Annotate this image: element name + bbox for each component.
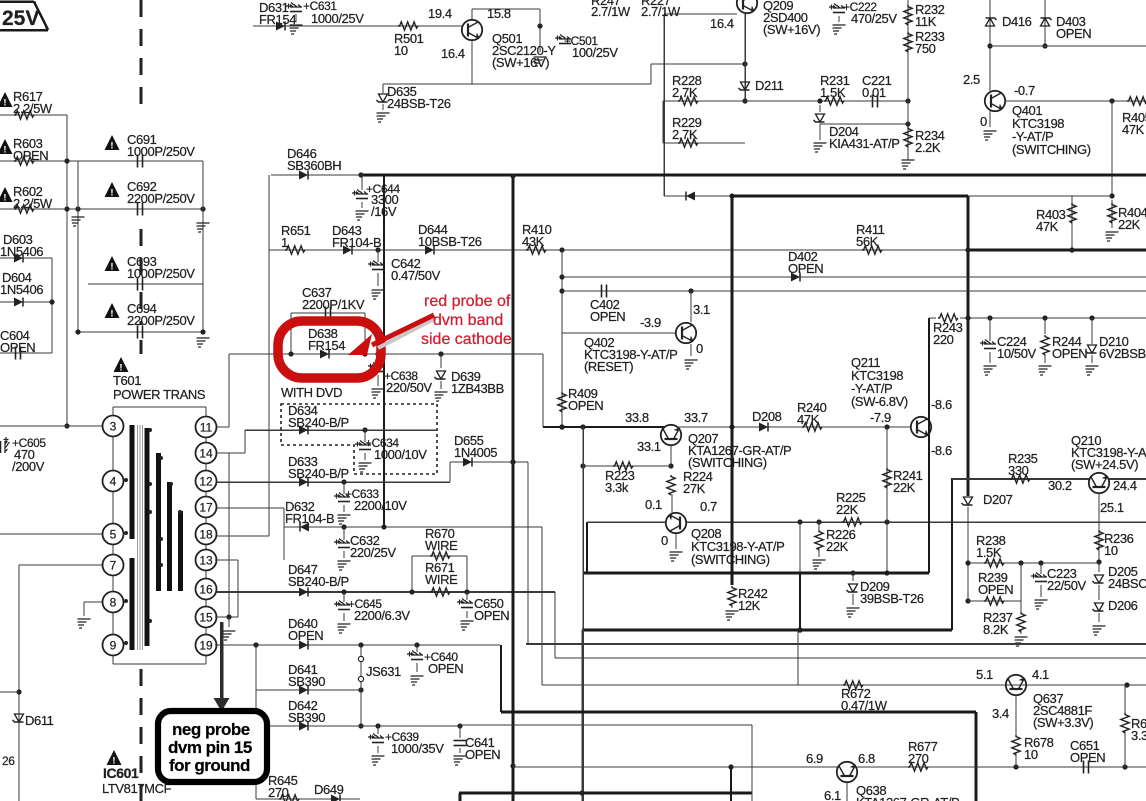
svg-text:OPEN: OPEN bbox=[590, 309, 625, 324]
svg-text:R247: R247 bbox=[591, 0, 621, 8]
svg-text:6V2BSB-: 6V2BSB- bbox=[1099, 346, 1146, 361]
svg-text:SB390: SB390 bbox=[288, 674, 325, 689]
svg-text:9: 9 bbox=[110, 639, 117, 653]
svg-text:16: 16 bbox=[199, 583, 213, 597]
svg-text:3.3k: 3.3k bbox=[605, 480, 629, 495]
svg-text:16.4: 16.4 bbox=[441, 46, 465, 61]
svg-text:1000P/250V: 1000P/250V bbox=[127, 266, 195, 281]
svg-text:47K: 47K bbox=[1122, 122, 1145, 137]
svg-text:2200P/250V: 2200P/250V bbox=[127, 191, 195, 206]
svg-text:15: 15 bbox=[199, 611, 213, 625]
svg-text:4: 4 bbox=[110, 475, 117, 489]
svg-text:330: 330 bbox=[1008, 463, 1029, 478]
svg-text:2.2/5W: 2.2/5W bbox=[13, 101, 53, 116]
svg-text:FR104-B: FR104-B bbox=[285, 511, 334, 526]
svg-text:OPEN: OPEN bbox=[288, 628, 323, 643]
svg-text:22/50V: 22/50V bbox=[1047, 578, 1087, 593]
svg-text:!: ! bbox=[3, 193, 6, 204]
svg-text:12: 12 bbox=[199, 475, 213, 489]
svg-text:0.47/1W: 0.47/1W bbox=[841, 698, 888, 713]
svg-text:27K: 27K bbox=[683, 481, 706, 496]
svg-text:OPEN: OPEN bbox=[0, 340, 35, 355]
svg-text:1N4005: 1N4005 bbox=[454, 445, 497, 460]
svg-text:8: 8 bbox=[110, 596, 117, 610]
svg-text:10/50V: 10/50V bbox=[997, 346, 1037, 361]
svg-text:JS631: JS631 bbox=[366, 664, 401, 679]
svg-text:22K: 22K bbox=[826, 539, 849, 554]
svg-text:0.01: 0.01 bbox=[862, 85, 886, 100]
svg-text:FR154: FR154 bbox=[308, 338, 345, 353]
svg-text:D611: D611 bbox=[25, 713, 54, 728]
svg-text:0: 0 bbox=[980, 114, 987, 129]
svg-text:!: ! bbox=[3, 98, 6, 109]
svg-text:24BSB-T26: 24BSB-T26 bbox=[387, 96, 451, 111]
svg-text:side cathode: side cathode bbox=[421, 331, 512, 348]
svg-text:19.4: 19.4 bbox=[428, 6, 452, 21]
svg-text:0.47/50V: 0.47/50V bbox=[391, 268, 441, 283]
svg-text:-0.7: -0.7 bbox=[1014, 83, 1035, 98]
svg-text:(SW+3.3V): (SW+3.3V) bbox=[1033, 715, 1093, 730]
svg-text:6.8: 6.8 bbox=[858, 751, 875, 766]
svg-text:SB240-B/P: SB240-B/P bbox=[288, 574, 349, 589]
svg-text:(SW+24.5V): (SW+24.5V) bbox=[1071, 457, 1138, 472]
svg-text:2200P/1KV: 2200P/1KV bbox=[302, 297, 365, 312]
svg-text:red probe of: red probe of bbox=[424, 293, 511, 310]
svg-text:2.2/5W: 2.2/5W bbox=[13, 196, 53, 211]
svg-text:8.2K: 8.2K bbox=[983, 622, 1009, 637]
svg-text:0: 0 bbox=[661, 533, 668, 548]
svg-text:1000/10V: 1000/10V bbox=[374, 447, 427, 462]
svg-text:39BSB-T26: 39BSB-T26 bbox=[860, 591, 924, 606]
svg-text:2200P/250V: 2200P/250V bbox=[127, 313, 195, 328]
svg-text:OPEN: OPEN bbox=[568, 398, 603, 413]
svg-text:SB240-B/P: SB240-B/P bbox=[288, 466, 349, 481]
svg-text:220/25V: 220/25V bbox=[350, 545, 396, 560]
svg-text:25V: 25V bbox=[2, 7, 39, 30]
svg-text:OPEN: OPEN bbox=[978, 582, 1013, 597]
svg-text:D416: D416 bbox=[1002, 14, 1032, 29]
svg-text:KTA1267-GR-AT/P: KTA1267-GR-AT/P bbox=[856, 795, 959, 801]
svg-text:WITH DVD: WITH DVD bbox=[281, 385, 342, 400]
svg-text:24.4: 24.4 bbox=[1113, 478, 1137, 493]
svg-text:D207: D207 bbox=[983, 492, 1013, 507]
svg-text:13: 13 bbox=[199, 554, 213, 568]
svg-text:(SW-6.8V): (SW-6.8V) bbox=[851, 394, 908, 409]
svg-text:D208: D208 bbox=[752, 409, 782, 424]
svg-text:WIRE: WIRE bbox=[425, 572, 458, 587]
svg-text:10: 10 bbox=[1024, 747, 1038, 762]
svg-text:FR104-B: FR104-B bbox=[332, 235, 381, 250]
svg-text:270: 270 bbox=[908, 751, 929, 766]
svg-text:for ground: for ground bbox=[169, 756, 250, 775]
svg-text:IC601: IC601 bbox=[103, 765, 139, 781]
svg-text:3: 3 bbox=[110, 420, 117, 434]
svg-text:!: ! bbox=[110, 262, 113, 273]
svg-text:56K: 56K bbox=[856, 234, 879, 249]
svg-text:750: 750 bbox=[915, 41, 936, 56]
svg-text:270: 270 bbox=[268, 785, 289, 800]
svg-text:LTV817MCF: LTV817MCF bbox=[102, 781, 172, 796]
svg-text:(SWITCHING): (SWITCHING) bbox=[688, 455, 767, 470]
svg-text:-8.6: -8.6 bbox=[931, 443, 952, 458]
svg-text:22K: 22K bbox=[836, 502, 859, 517]
svg-text:10BSB-T26: 10BSB-T26 bbox=[418, 234, 482, 249]
svg-text:1000/35V: 1000/35V bbox=[391, 741, 444, 756]
svg-text:0.1: 0.1 bbox=[645, 497, 662, 512]
svg-text:3.1: 3.1 bbox=[693, 302, 710, 317]
svg-text:5: 5 bbox=[110, 528, 117, 542]
svg-text:3.4: 3.4 bbox=[992, 706, 1009, 721]
svg-text:!: ! bbox=[110, 309, 113, 320]
svg-text:SB240-B/P: SB240-B/P bbox=[288, 415, 349, 430]
svg-text:7: 7 bbox=[110, 559, 117, 573]
svg-text:/200V: /200V bbox=[12, 459, 45, 474]
svg-text:WIRE: WIRE bbox=[425, 538, 458, 553]
svg-text:19: 19 bbox=[199, 639, 213, 653]
svg-text:!: ! bbox=[110, 141, 113, 152]
svg-text:OPEN: OPEN bbox=[1070, 750, 1105, 765]
svg-text:OPEN: OPEN bbox=[1052, 346, 1087, 361]
svg-text:12K: 12K bbox=[738, 598, 761, 613]
svg-text:OPEN: OPEN bbox=[465, 747, 500, 762]
svg-text:11: 11 bbox=[200, 421, 213, 435]
svg-text:!: ! bbox=[110, 188, 113, 199]
svg-text:11K: 11K bbox=[915, 14, 937, 29]
svg-text:(SWITCHING): (SWITCHING) bbox=[691, 552, 770, 567]
svg-text:dvm pin 15: dvm pin 15 bbox=[168, 738, 252, 757]
svg-text:220: 220 bbox=[933, 332, 954, 347]
svg-text:24BSC-: 24BSC- bbox=[1108, 576, 1146, 591]
svg-text:dvm band: dvm band bbox=[433, 312, 503, 329]
svg-text:(SW+16V): (SW+16V) bbox=[763, 22, 820, 37]
svg-text:(RESET): (RESET) bbox=[584, 359, 633, 374]
svg-text:SB390: SB390 bbox=[288, 710, 325, 725]
svg-text:1N5406: 1N5406 bbox=[0, 282, 43, 297]
svg-text:1N5406: 1N5406 bbox=[0, 244, 43, 259]
svg-text:2.5: 2.5 bbox=[963, 72, 980, 87]
svg-text:5.1: 5.1 bbox=[976, 667, 993, 682]
svg-text:!: ! bbox=[3, 145, 6, 156]
svg-text:2200/6.3V: 2200/6.3V bbox=[354, 608, 410, 623]
svg-text:4.1: 4.1 bbox=[1032, 667, 1049, 682]
svg-text:2.7K: 2.7K bbox=[672, 85, 698, 100]
svg-text:T601: T601 bbox=[113, 373, 141, 388]
svg-text:10: 10 bbox=[394, 43, 408, 58]
svg-text:D649: D649 bbox=[314, 782, 344, 797]
svg-text:neg probe: neg probe bbox=[172, 720, 250, 739]
svg-text:!: ! bbox=[119, 363, 122, 374]
svg-text:SB360BH: SB360BH bbox=[287, 158, 341, 173]
svg-text:3.3: 3.3 bbox=[1131, 728, 1146, 743]
svg-text:1000P/250V: 1000P/250V bbox=[127, 144, 195, 159]
svg-text:25.1: 25.1 bbox=[1100, 500, 1124, 515]
svg-text:6.9: 6.9 bbox=[806, 751, 823, 766]
svg-text:22K: 22K bbox=[1118, 217, 1141, 232]
svg-text:47K: 47K bbox=[797, 412, 820, 427]
svg-text:33.1: 33.1 bbox=[637, 439, 661, 454]
svg-text:17: 17 bbox=[199, 501, 213, 515]
svg-text:/16V: /16V bbox=[371, 204, 397, 219]
svg-text:220/50V: 220/50V bbox=[386, 380, 432, 395]
svg-text:1: 1 bbox=[281, 235, 288, 250]
svg-text:-8.6: -8.6 bbox=[931, 397, 952, 412]
svg-text:OPEN: OPEN bbox=[1056, 26, 1091, 41]
svg-text:FR154: FR154 bbox=[259, 12, 296, 27]
svg-text:(SWITCHING): (SWITCHING) bbox=[1012, 142, 1091, 157]
svg-text:1.5K: 1.5K bbox=[820, 85, 846, 100]
svg-text:33.8: 33.8 bbox=[625, 410, 649, 425]
svg-text:0: 0 bbox=[696, 341, 703, 356]
svg-text:18: 18 bbox=[199, 528, 213, 542]
svg-text:47K: 47K bbox=[1036, 219, 1059, 234]
svg-text:43K: 43K bbox=[522, 234, 545, 249]
svg-text:-3.9: -3.9 bbox=[640, 315, 661, 330]
svg-text:1000/25V: 1000/25V bbox=[311, 11, 364, 26]
svg-text:2.7K: 2.7K bbox=[672, 127, 698, 142]
svg-text:1.5K: 1.5K bbox=[976, 545, 1002, 560]
svg-text:470/25V: 470/25V bbox=[851, 11, 897, 26]
svg-text:22K: 22K bbox=[893, 480, 916, 495]
svg-text:KIA431-AT/P: KIA431-AT/P bbox=[829, 136, 900, 151]
svg-text:16.4: 16.4 bbox=[710, 16, 734, 31]
svg-text:POWER TRANS: POWER TRANS bbox=[113, 387, 206, 402]
svg-text:2200/10V: 2200/10V bbox=[354, 498, 407, 513]
svg-text:-7.9: -7.9 bbox=[870, 410, 891, 425]
svg-text:D206: D206 bbox=[1108, 598, 1138, 613]
svg-text:100/25V: 100/25V bbox=[572, 45, 618, 60]
svg-text:D211: D211 bbox=[755, 78, 784, 93]
svg-text:10: 10 bbox=[1104, 543, 1118, 558]
svg-text:30.2: 30.2 bbox=[1048, 478, 1072, 493]
svg-text:(SW+16V): (SW+16V) bbox=[492, 55, 549, 70]
svg-text:OPEN: OPEN bbox=[428, 661, 463, 676]
svg-text:26: 26 bbox=[2, 754, 15, 768]
svg-text:OPEN: OPEN bbox=[13, 148, 48, 163]
svg-text:2.2K: 2.2K bbox=[915, 140, 941, 155]
svg-text:15.8: 15.8 bbox=[487, 6, 511, 21]
svg-text:14: 14 bbox=[199, 447, 213, 461]
svg-text:1ZB43BB: 1ZB43BB bbox=[451, 381, 504, 396]
svg-text:R227: R227 bbox=[641, 0, 671, 8]
svg-text:6.1: 6.1 bbox=[824, 788, 841, 801]
svg-text:33.7: 33.7 bbox=[684, 410, 708, 425]
svg-text:0.7: 0.7 bbox=[700, 499, 717, 514]
svg-text:OPEN: OPEN bbox=[474, 608, 509, 623]
